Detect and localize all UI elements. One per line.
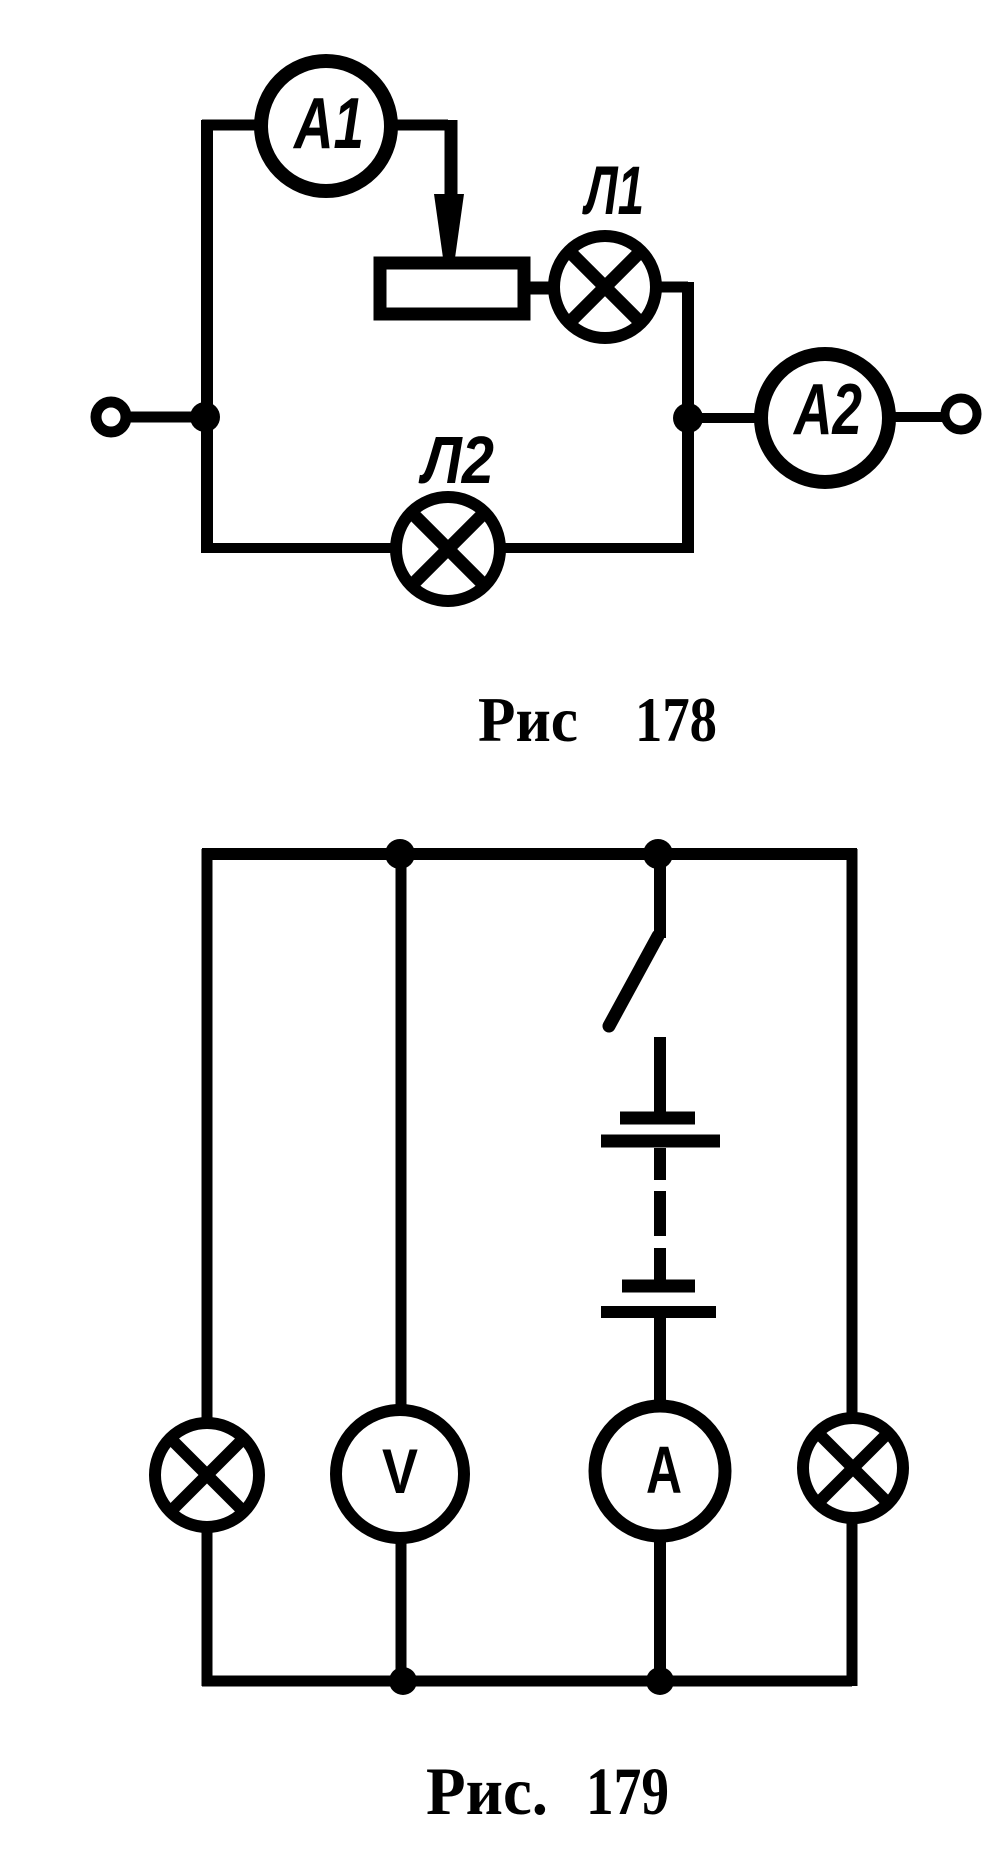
svg-text:178: 178 [635,685,717,755]
svg-text:Рис: Рис [478,685,578,755]
svg-text:А1: А1 [292,84,364,164]
svg-text:Л1: Л1 [582,152,644,229]
svg-text:А2: А2 [793,370,862,450]
svg-text:A: A [646,1433,682,1508]
svg-text:Л2: Л2 [418,423,494,498]
svg-text:V: V [382,1437,418,1507]
svg-text:Рис.: Рис. [426,1753,548,1829]
svg-text:179: 179 [586,1753,669,1829]
